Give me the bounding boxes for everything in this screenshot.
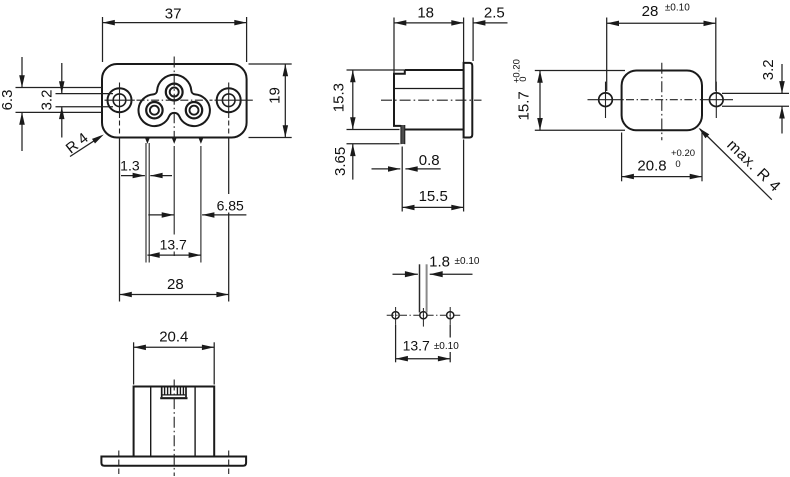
svg-text:±0.10: ±0.10 — [455, 256, 480, 267]
side view: internal step line — [394, 88, 464, 90]
front view: trefoil recess outline — [138, 75, 209, 126]
front view: right mounting hole — [217, 88, 241, 112]
dimension 6.3 (mounting hole boss diameter) — [0, 57, 102, 151]
svg-text:18: 18 — [417, 5, 434, 22]
dimension 15.7 +0.20/0 (cutout height) — [511, 59, 625, 130]
svg-text:13.7: 13.7 — [160, 237, 187, 253]
front view: lower-right contact hole — [186, 102, 202, 118]
front view: connector body outline (rounded rect 37x19) — [102, 64, 247, 138]
panel cutout: horizontal centreline — [588, 99, 734, 101]
front view: right hole vertical centreline — [228, 83, 230, 136]
radius callout R 4 (front body corner) — [63, 130, 104, 158]
dimension 3.65 (pin projection) — [332, 144, 400, 180]
bottom view: vertical centreline — [173, 380, 175, 477]
bottom view: inner housing edges — [151, 388, 195, 457]
bottom view: left fixing hole centreline — [118, 451, 120, 475]
svg-text:0: 0 — [675, 159, 680, 170]
radius callout max. R 4 (cutout corner) — [699, 128, 784, 200]
dimension 6.85 (pin offset) — [148, 197, 246, 217]
svg-text:20.8: 20.8 — [637, 157, 666, 174]
front view: left hole vertical centreline — [119, 83, 121, 136]
side view: body outline with front rebates — [394, 70, 464, 130]
dimension 1.3 (pin thickness) — [120, 158, 172, 179]
svg-text:3.65: 3.65 — [332, 147, 349, 176]
dimension 1.8 +/-0.10 (pin hole width) — [393, 254, 480, 278]
svg-text:1.3: 1.3 — [120, 158, 140, 174]
panel cutout: left fixing hole — [599, 93, 613, 107]
front view: horizontal centreline through holes — [105, 99, 253, 101]
dimension 37 (front width) — [103, 5, 247, 62]
front view: left mounting hole — [108, 88, 132, 112]
front view: left solder pin tip — [145, 138, 150, 262]
pcb drilling plan: left hole — [392, 307, 399, 325]
svg-text:1.8: 1.8 — [429, 254, 450, 271]
svg-text:28: 28 — [642, 3, 659, 20]
svg-text:±0.10: ±0.10 — [665, 3, 690, 14]
panel cutout: right fixing hole — [710, 93, 724, 107]
panel cutout: aperture outline (rounded rect 20.8x15.7) — [622, 71, 702, 131]
bottom view: mounting flange — [101, 457, 246, 466]
dimension 3.2 (mounting hole diameter) — [39, 63, 114, 138]
dimension 3.2 (fixing hole diameter) — [722, 59, 789, 133]
svg-text:0.8: 0.8 — [419, 152, 440, 169]
front view: middle solder pin tip — [172, 138, 177, 256]
dimension 19 (front height) — [249, 64, 292, 138]
svg-text:20.4: 20.4 — [159, 329, 188, 346]
dimension 20.8 +0.20/0 (cutout width) — [622, 133, 702, 182]
pcb drilling plan: middle hole — [420, 308, 427, 327]
svg-text:3.2: 3.2 — [760, 59, 777, 80]
dimension 15.3 (body height, side) — [330, 70, 404, 130]
dimension 28 +/-0.10 (fixing hole spacing) — [607, 3, 716, 92]
dimension 0.8 (pin width) — [372, 152, 441, 172]
bottom view: body outline — [134, 387, 215, 457]
pcb drilling plan: right hole — [447, 307, 454, 325]
dimension 18 (body depth) — [394, 5, 464, 74]
svg-text:15.7: 15.7 — [516, 91, 533, 120]
svg-text:3.2: 3.2 — [39, 90, 56, 111]
bottom view: serrated solder tab — [160, 387, 187, 398]
front view: vertical centreline — [173, 57, 175, 142]
side view: horizontal centreline — [381, 99, 482, 101]
dimension 20.4 (housing width) — [134, 329, 215, 385]
svg-text:15.3: 15.3 — [330, 83, 347, 112]
panel cutout: left hole vertical centreline — [605, 82, 607, 118]
bottom view: right fixing hole centreline — [228, 451, 230, 475]
front view: top contact (earth pin hole) — [166, 84, 183, 101]
svg-text:37: 37 — [165, 5, 182, 22]
pcb drilling plan: horizontal centreline — [387, 314, 462, 316]
svg-text:6.85: 6.85 — [217, 197, 244, 213]
svg-text:+0.20: +0.20 — [671, 148, 695, 159]
panel cutout: right hole vertical centreline — [715, 82, 717, 118]
svg-text:15.5: 15.5 — [419, 188, 448, 205]
dimension 28 (mounting hole spacing, front) — [120, 138, 229, 302]
svg-text:6.3: 6.3 — [0, 90, 16, 111]
dimension 13.7 (outer pin spacing, front) — [147, 237, 201, 258]
panel cutout: vertical centreline — [661, 63, 663, 141]
svg-text:13.7: 13.7 — [403, 337, 430, 353]
side view: mounting flange — [464, 63, 473, 138]
side view: solder pin — [401, 125, 405, 144]
dimension 15.5 (pin to flange face) — [402, 140, 463, 212]
pcb drilling plan: solder pin (double line) — [420, 264, 427, 312]
svg-text:2.5: 2.5 — [484, 5, 505, 22]
svg-text:±0.10: ±0.10 — [434, 341, 459, 352]
dimension 2.5 (flange thickness) — [473, 5, 507, 62]
front view: lower-left contact hole — [146, 102, 162, 118]
svg-text:0: 0 — [518, 76, 529, 81]
front view: right solder pin tip — [199, 138, 204, 262]
svg-text:28: 28 — [167, 276, 184, 293]
svg-text:19: 19 — [267, 87, 284, 104]
dimension 13.7 +/-0.10 (hole spacing) — [396, 325, 460, 363]
